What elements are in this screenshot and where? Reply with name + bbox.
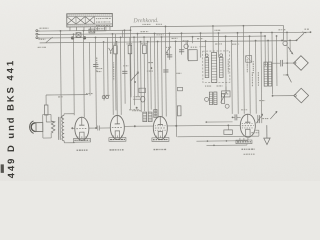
grid cap circle xyxy=(183,41,189,49)
circle small V4 xyxy=(225,104,229,108)
divider resistors mid xyxy=(132,107,157,122)
tube V3 socket label xyxy=(152,136,169,142)
bus wire B xyxy=(37,31,311,35)
resistor left xyxy=(44,105,54,122)
title text 449 D und BKS 441 xyxy=(4,59,16,179)
bottom bus stub xyxy=(255,130,259,136)
tuning gang box (hatched) xyxy=(67,13,113,27)
cap pair above V4 xyxy=(209,92,217,105)
grid cap circles xyxy=(102,96,109,99)
antenna/earth terminals xyxy=(36,28,53,47)
svg-text:Drehkond.: Drehkond. xyxy=(132,18,158,24)
bus wire A xyxy=(37,27,130,38)
tube V2 socket label xyxy=(109,135,126,141)
wire mid-low xyxy=(205,121,232,123)
bottom bus 2 xyxy=(196,140,248,142)
small box mid xyxy=(177,87,182,91)
tube V3 name xyxy=(154,148,167,150)
switch arrow right xyxy=(288,47,293,54)
small box above oval xyxy=(139,88,146,92)
speaker jack upper xyxy=(294,56,309,71)
pot resistor 1 xyxy=(205,54,209,78)
capacitor symbols xyxy=(93,50,184,74)
tube V4 name2 xyxy=(244,153,255,155)
faint labels mid-left xyxy=(58,57,153,101)
pot arrow V4 xyxy=(221,92,227,104)
series cap upper jack xyxy=(272,60,287,67)
rectifier arrow xyxy=(264,125,271,145)
wire to output transformer xyxy=(46,95,88,105)
trimmer square 2 xyxy=(246,56,252,63)
lamp xyxy=(283,41,287,45)
speaker wires xyxy=(43,114,52,138)
gang box stub wires xyxy=(70,27,110,31)
wire V3-V4 xyxy=(167,124,240,135)
resistor row xyxy=(112,44,147,54)
tube V4 name xyxy=(242,148,255,150)
volume arrow xyxy=(131,72,139,83)
edge mark xyxy=(1,164,4,173)
labels right cluster xyxy=(200,44,229,74)
tag box xyxy=(89,29,95,33)
tube V2 name xyxy=(110,149,124,151)
transformer box right-top xyxy=(188,47,198,61)
pot resistor 2 xyxy=(219,54,223,78)
grid arrow small xyxy=(109,45,118,53)
resistor mid-right xyxy=(177,106,181,116)
solder blob 1 xyxy=(71,36,74,39)
switch contact arrow xyxy=(286,74,291,82)
tube V1 socket label xyxy=(73,136,90,142)
tube V4 RGN354 xyxy=(240,114,255,137)
extra value labels xyxy=(123,23,286,111)
hum pot dashed box xyxy=(203,51,230,83)
bus wire top xyxy=(130,25,283,41)
speaker jack lower xyxy=(294,88,309,103)
antenna symbol right xyxy=(296,29,308,40)
wire to lower jack xyxy=(272,95,295,97)
electrolytic pair right xyxy=(264,62,272,86)
grid cap V4 xyxy=(232,114,241,120)
bus junction dots xyxy=(60,24,298,43)
trimmer square xyxy=(76,33,81,38)
bottom bus 1 xyxy=(177,135,258,138)
paper background xyxy=(0,0,320,181)
grid dot V1 xyxy=(71,127,75,129)
labels bottom right xyxy=(251,119,268,133)
bus wire heater xyxy=(40,41,297,43)
vertical drop wires xyxy=(60,25,290,137)
labels right xyxy=(252,72,288,86)
label Drehkond xyxy=(132,18,158,24)
coupling cap V1-V2 xyxy=(89,125,111,130)
wire to upper jack xyxy=(286,62,294,64)
tube V1 REN904 xyxy=(75,117,89,140)
arrow near rectifier xyxy=(270,111,277,119)
cap right of V4 xyxy=(256,114,263,123)
bottom bus 3 xyxy=(206,144,247,146)
solder blob 2 xyxy=(83,36,86,39)
small box lower right-mid xyxy=(221,86,230,97)
electrolytic mid xyxy=(211,53,216,83)
output transformer xyxy=(51,114,74,143)
switch small mid xyxy=(166,46,171,54)
info box xyxy=(95,27,106,31)
tube V3 RES164 xyxy=(153,116,167,139)
loudspeaker xyxy=(30,121,43,134)
resistor row stubs xyxy=(115,34,130,111)
tube V4 socket label xyxy=(236,138,252,144)
svg-text:449 D und BKS 441: 449 D und BKS 441 xyxy=(4,59,16,179)
circle small left xyxy=(205,97,209,101)
tube V2 RENS1204 xyxy=(110,115,124,139)
fuse oval xyxy=(133,96,145,102)
coupling V2-V3 xyxy=(124,110,153,128)
bus wire C xyxy=(37,36,265,38)
tube V1 name xyxy=(77,149,88,151)
